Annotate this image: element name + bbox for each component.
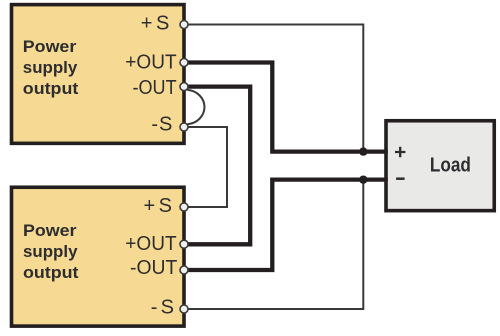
wire: supply1 +OUT to load + (thick) [184, 63, 388, 152]
junction dot + node [359, 147, 367, 155]
terminal -OUT (supply 2) [180, 266, 188, 274]
svg-text:-S: -S [151, 114, 173, 136]
svg-text:Power: Power [23, 37, 77, 56]
wire: supply2 -OUT to load - (thick) [184, 180, 388, 270]
svg-text:supply: supply [23, 58, 78, 77]
wire: arc jumper supply1 -OUT to -S (thin) [187, 90, 204, 124]
terminal -S (supply 2) [180, 305, 188, 313]
terminal -OUT (supply 1) [180, 83, 188, 91]
svg-text:+OUT: +OUT [125, 52, 176, 74]
wire: supply1 -OUT to supply2 +OUT series link (thick) [184, 87, 250, 245]
terminal +OUT (supply 2) [180, 240, 188, 248]
power supply 2 box [12, 187, 185, 326]
svg-text:output: output [23, 263, 79, 282]
load + mark [395, 147, 405, 157]
svg-text:+OUT: +OUT [125, 233, 176, 255]
power supply 2 label [23, 221, 79, 282]
svg-text:+S: +S [141, 12, 173, 34]
terminal +S (supply 1) [180, 21, 188, 29]
load box [386, 121, 494, 211]
svg-text:output: output [23, 79, 79, 98]
power supply 1 label [23, 37, 79, 98]
svg-text:supply: supply [23, 242, 78, 261]
terminal -S (supply 1) [180, 123, 188, 131]
svg-text:Load: Load [430, 155, 471, 177]
wire: supply2 -S sense to load - node (thin) [184, 180, 363, 309]
wire: supply1 -S to supply2 +S sense link (thin) [184, 127, 227, 207]
terminal +OUT (supply 1) [180, 59, 188, 67]
svg-text:-S: -S [151, 297, 177, 319]
wire: supply1 +S sense to load + node (thin) [184, 25, 363, 152]
load - mark [396, 177, 405, 180]
svg-text:+S: +S [144, 195, 176, 217]
terminal +S (supply 2) [180, 203, 188, 211]
power supply 1 box [12, 5, 185, 144]
svg-text:Power: Power [23, 221, 77, 240]
svg-text:-OUT: -OUT [130, 257, 177, 279]
junction dot - node [359, 175, 367, 183]
svg-text:-OUT: -OUT [133, 77, 177, 99]
